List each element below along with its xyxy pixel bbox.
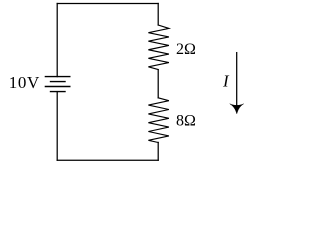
svg-text:2Ω: 2Ω [176, 41, 196, 58]
wire right middle (between resistors) [157, 70, 159, 98]
wire left upper (top corner to battery) [56, 4, 58, 77]
wire bottom [57, 159, 158, 161]
svg-text:8Ω: 8Ω [176, 112, 196, 129]
current arrow head [230, 104, 244, 114]
wire left lower (battery to bottom wire) [56, 92, 58, 161]
battery B1 plate 1 (long, +) [45, 76, 69, 78]
battery B1 plate 2 (short, -) [51, 81, 66, 83]
svg-text:10V: 10V [9, 73, 40, 92]
wire right upper (top corner to resistor 2ohm) [157, 4, 159, 26]
battery B1 plate 4 (short, -) [51, 91, 66, 93]
wire right lower (resistor 8ohm to bottom wire) [157, 142, 159, 160]
resistor R2 8ohm zigzag [148, 98, 169, 143]
battery B1 plate 3 (long, +) [45, 86, 69, 88]
resistor R1 2ohm zigzag [148, 25, 169, 70]
svg-text:I: I [222, 71, 230, 90]
current arrow shaft [236, 53, 238, 108]
wire top [57, 3, 158, 5]
